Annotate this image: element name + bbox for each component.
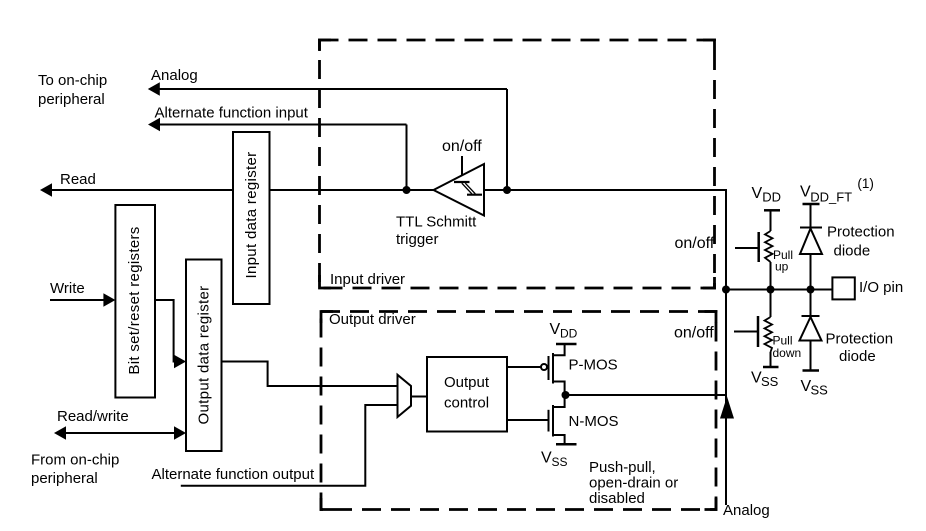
svg-text:Input driver: Input driver	[330, 271, 405, 288]
resistor R2: pull-down	[765, 290, 773, 368]
wire: I/O pin line	[726, 289, 832, 291]
svg-text:open-drain or: open-drain or	[589, 475, 678, 492]
node: junction dot protection diode column	[807, 286, 815, 294]
wire: Alternate function input line with left arrowhead	[148, 118, 407, 190]
svg-text:peripheral: peripheral	[31, 470, 98, 487]
svg-text:Protection: Protection	[827, 224, 895, 241]
svg-text:I/O pin: I/O pin	[859, 279, 903, 296]
wire: Schmitt output to right, down at x=726 to bottom Analog	[484, 190, 726, 505]
svg-text:peripheral: peripheral	[38, 91, 105, 108]
svg-text:DD: DD	[762, 190, 781, 205]
svg-text:V: V	[752, 185, 763, 202]
label Push-pull, open-drain or disabled	[589, 459, 678, 507]
svg-text:Read: Read	[60, 171, 96, 188]
power: VDD rail above P-MOS	[556, 343, 577, 346]
register box: Bit set/reset registers	[115, 205, 155, 398]
svg-text:V: V	[550, 321, 561, 338]
diode D2: protection diode (bottom)	[800, 290, 822, 371]
node: junction dot Analog / Read line	[503, 186, 511, 194]
wire/arrow: Write into bit set/reset registers	[50, 293, 115, 306]
svg-text:To on-chip: To on-chip	[38, 72, 107, 89]
wire: N-MOS gate from Output control	[507, 419, 549, 421]
register box: Output data register	[186, 260, 222, 452]
svg-text:Read/write: Read/write	[57, 408, 129, 425]
svg-text:Bit set/reset registers: Bit set/reset registers	[126, 226, 143, 374]
label Protection diode (bottom)	[826, 331, 894, 366]
svg-text:diode: diode	[834, 243, 871, 260]
wire: P-MOS gate from Output control	[507, 366, 541, 368]
svg-text:diode: diode	[839, 348, 876, 365]
transistor Q2: N-MOS	[549, 395, 565, 444]
svg-text:DD_FT: DD_FT	[810, 190, 852, 205]
svg-text:on/off: on/off	[442, 138, 482, 155]
switch: pull-down on/off	[734, 316, 758, 347]
mux selector (trapezoid)	[398, 375, 412, 417]
power: VDD rail (pull-up)	[764, 209, 780, 212]
svg-text:Output data register: Output data register	[196, 286, 213, 425]
label VSS (N-MOS)	[541, 450, 568, 470]
power: VSS rail (bottom diode)	[803, 369, 820, 372]
resistor R1: pull-up	[765, 211, 773, 290]
svg-text:Alternate function input: Alternate function input	[155, 105, 309, 122]
diode D1: protection diode (top)	[800, 228, 822, 290]
svg-text:on/off: on/off	[674, 325, 714, 342]
wire: Alternate function output to mux lower input	[181, 405, 398, 486]
svg-text:Analog: Analog	[151, 67, 198, 84]
wire: mux output to Output control	[411, 396, 427, 398]
svg-text:N-MOS: N-MOS	[569, 413, 619, 430]
svg-text:Alternate function output: Alternate function output	[152, 466, 315, 483]
svg-text:SS: SS	[811, 383, 829, 398]
svg-text:Output driver: Output driver	[329, 311, 416, 328]
wire: bit set/reset registers to output data register (arrow)	[155, 300, 186, 368]
label VSS (bottom diode)	[801, 378, 829, 398]
node: junction dot pull-up/pull-down column	[767, 286, 775, 294]
node: P-MOS/N-MOS common output junction	[562, 391, 570, 399]
svg-text:TTL Schmitt: TTL Schmitt	[396, 214, 477, 231]
register box: Input data register	[233, 132, 270, 304]
label Pull down	[773, 334, 802, 361]
svg-text:Protection: Protection	[826, 331, 894, 348]
power: VSS rail below N-MOS	[556, 443, 577, 446]
label Protection diode (top)	[827, 224, 895, 260]
transistor Q1: P-MOS	[541, 344, 565, 395]
svg-text:Push-pull,: Push-pull,	[589, 459, 656, 476]
label VSS (pull-down)	[751, 370, 779, 390]
svg-text:SS: SS	[552, 455, 568, 469]
wire/arrow: Read/write bidirectional	[54, 426, 186, 439]
wire/arrow: Analog path up arrow (bottom right)	[720, 397, 734, 419]
switch: pull-up on/off	[735, 232, 759, 262]
label Pull up	[773, 248, 793, 274]
svg-text:(1): (1)	[857, 176, 874, 191]
svg-text:From on-chip: From on-chip	[31, 452, 119, 469]
svg-text:DD: DD	[560, 327, 578, 341]
svg-text:P-MOS: P-MOS	[569, 357, 618, 374]
op-amp U1: TTL Schmitt trigger	[434, 156, 485, 216]
svg-text:disabled: disabled	[589, 490, 645, 507]
svg-text:trigger: trigger	[396, 231, 439, 248]
pad: I/O pin square	[832, 277, 854, 299]
label VDD_FT with note (1)	[800, 176, 874, 205]
svg-text:on/off: on/off	[675, 235, 715, 252]
node: junction dot AFI / Read line	[403, 186, 411, 194]
label VDD (pull-up)	[752, 185, 782, 205]
svg-text:SS: SS	[761, 374, 779, 389]
dashed box: Input driver	[320, 40, 715, 288]
wire: Read line with left arrowhead	[40, 183, 434, 196]
svg-text:V: V	[541, 450, 552, 467]
wire: output stage to I/O line	[566, 394, 728, 396]
svg-text:Analog: Analog	[723, 502, 770, 519]
svg-text:Write: Write	[50, 280, 85, 297]
dashed box: Output driver	[321, 312, 716, 510]
wire: output data register to mux upper input	[222, 362, 398, 387]
box: Output control	[427, 357, 507, 432]
svg-text:up: up	[775, 260, 789, 274]
wire: Analog input line (top) with left arrowhead	[148, 82, 507, 190]
svg-text:down: down	[773, 346, 802, 360]
power: VSS rail (pull-down)	[763, 366, 779, 369]
svg-text:Output: Output	[444, 374, 490, 391]
node: junction dot at read/analog vertical and I/O line	[722, 286, 730, 294]
label VDD (P-MOS)	[550, 321, 578, 341]
svg-text:control: control	[444, 395, 489, 412]
power: VDD_FT rail	[803, 204, 820, 228]
svg-text:Input data register: Input data register	[243, 152, 260, 279]
